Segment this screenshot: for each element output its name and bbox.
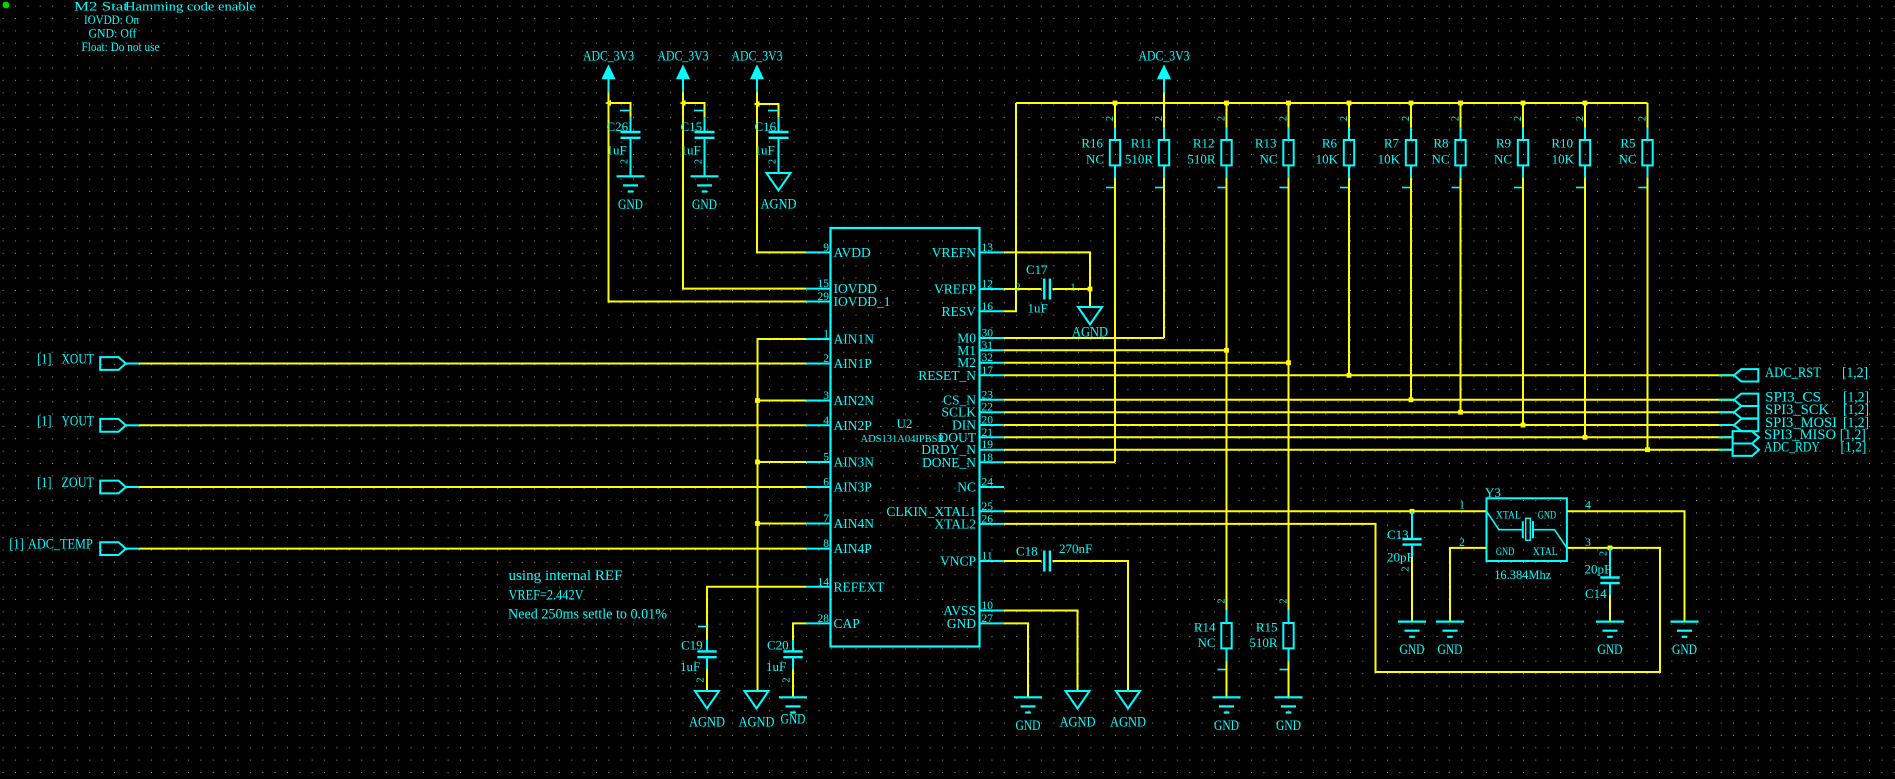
svg-text:17: 17 bbox=[982, 365, 994, 377]
pin 17 RESET_N bbox=[918, 365, 1004, 383]
power flag ADC_3V3 (C26 rail) bbox=[583, 49, 634, 93]
wire crystal pin 4 to GND bbox=[1567, 511, 1685, 621]
capacitor C19 1uF bbox=[680, 627, 717, 683]
svg-text:RESV: RESV bbox=[941, 304, 976, 319]
svg-text:VREFN: VREFN bbox=[932, 245, 977, 260]
svg-text:M2 Stat: M2 Stat bbox=[74, 0, 129, 14]
junction bus/R12 bbox=[1224, 101, 1229, 106]
wire M2 column down to R15 bbox=[1288, 363, 1290, 610]
port SPI3_SCK [1,2] bbox=[1719, 402, 1869, 418]
junction bus/R10 bbox=[1583, 101, 1588, 106]
svg-text:ADC_3V3: ADC_3V3 bbox=[732, 49, 783, 65]
svg-text:ADC_RST: ADC_RST bbox=[1765, 365, 1821, 381]
svg-text:5: 5 bbox=[823, 452, 829, 464]
pin 13 VREFN bbox=[932, 242, 1004, 260]
svg-text:GND: GND bbox=[1438, 642, 1463, 658]
wire bus drop to R5 bbox=[1647, 103, 1649, 128]
svg-text:2: 2 bbox=[694, 159, 705, 164]
svg-text:YOUT: YOUT bbox=[62, 413, 94, 429]
port ZOUT [1] bbox=[37, 475, 139, 493]
svg-text:R10: R10 bbox=[1551, 136, 1573, 151]
svg-text:AIN3P: AIN3P bbox=[834, 480, 872, 495]
svg-text:GND: GND bbox=[1672, 642, 1697, 658]
svg-text:AGND: AGND bbox=[689, 714, 725, 730]
wire pin 27 GND to GND symbol bbox=[1004, 623, 1028, 697]
pin 28 CAP bbox=[806, 613, 860, 631]
svg-text:25: 25 bbox=[982, 501, 994, 513]
wire branch to pin 7 AIN4N bbox=[758, 523, 807, 525]
ground AGND (C19) bbox=[689, 691, 725, 730]
junction DRDY_N/R5 bbox=[1645, 447, 1650, 452]
svg-text:R8: R8 bbox=[1433, 136, 1448, 151]
resistor R13 NC bbox=[1255, 116, 1294, 188]
svg-text:2: 2 bbox=[1154, 116, 1165, 121]
svg-text:R13: R13 bbox=[1255, 136, 1277, 151]
wire ADC_3V3 stem to elbow C15 bbox=[682, 93, 684, 104]
wire R8 bottom to net SCK bbox=[1460, 178, 1462, 412]
svg-text:Need 250ms settle to 0.01%: Need 250ms settle to 0.01% bbox=[508, 607, 667, 623]
svg-text:GND: GND bbox=[1276, 718, 1301, 734]
wire pin 31 M1 to R12/R14 column bbox=[1004, 349, 1227, 351]
pin 14 REFEXT bbox=[806, 576, 885, 594]
svg-text:IOVDD_1: IOVDD_1 bbox=[834, 294, 891, 309]
pin 9 AVDD bbox=[806, 242, 871, 260]
resistor R5 NC bbox=[1618, 116, 1652, 188]
wire ADC_TEMP to pin 8 AIN4P bbox=[139, 548, 806, 550]
svg-text:2: 2 bbox=[1217, 598, 1228, 603]
svg-text:ADC_3V3: ADC_3V3 bbox=[583, 49, 634, 65]
wire R5 bottom to net RDY bbox=[1647, 178, 1649, 450]
pin 25 CLKIN_XTAL1 bbox=[886, 501, 1004, 519]
capacitor C26 1uF bbox=[607, 111, 641, 165]
svg-text:2: 2 bbox=[620, 159, 631, 164]
svg-text:19: 19 bbox=[982, 439, 994, 451]
power flag ADC_3V3 (pull-up bus) bbox=[1139, 49, 1190, 93]
ground GND (C15) bbox=[691, 176, 719, 213]
svg-text:ADC_RDY: ADC_RDY bbox=[1764, 440, 1820, 456]
crystal Y3 16.384Mhz bbox=[1459, 485, 1591, 582]
svg-text:1uF: 1uF bbox=[680, 659, 700, 674]
svg-text:R9: R9 bbox=[1496, 136, 1511, 151]
svg-text:2: 2 bbox=[1105, 116, 1116, 121]
pin 8 AIN4P bbox=[806, 538, 872, 556]
svg-text:9: 9 bbox=[823, 242, 829, 254]
wire bus drop to R6 bbox=[1348, 103, 1350, 128]
svg-text:C15: C15 bbox=[681, 119, 703, 134]
svg-text:14: 14 bbox=[818, 576, 830, 588]
wire elbow marker C26 bbox=[605, 100, 611, 106]
port SPI3_CS [1,2] bbox=[1719, 390, 1869, 406]
pin 7 AIN4N bbox=[806, 513, 874, 531]
svg-text:10K: 10K bbox=[1378, 152, 1401, 167]
svg-text:4: 4 bbox=[1585, 500, 1591, 512]
wire bus to pin 16 RESV bbox=[1004, 103, 1016, 311]
wire pin 11 VNCP to C18 bbox=[1004, 560, 1042, 562]
svg-text:C14: C14 bbox=[1585, 586, 1607, 601]
svg-text:GND: GND bbox=[1016, 718, 1041, 734]
svg-text:2: 2 bbox=[1451, 116, 1462, 121]
svg-text:NC: NC bbox=[1086, 152, 1104, 167]
svg-text:11: 11 bbox=[982, 551, 993, 563]
wire R14 to GND bbox=[1226, 661, 1228, 697]
wire pin 22 SCLK to port SPI3_SCK bbox=[1004, 411, 1734, 413]
pin 4 AIN2P bbox=[806, 415, 872, 433]
svg-text:2: 2 bbox=[1015, 283, 1020, 294]
svg-text:IOVDD: On: IOVDD: On bbox=[84, 13, 140, 27]
resistor R16 NC bbox=[1081, 116, 1120, 188]
svg-text:26: 26 bbox=[982, 513, 994, 525]
wire pin 26 XTAL2 loop to crystal pin 3 bbox=[1004, 524, 1660, 672]
svg-text:2: 2 bbox=[1401, 116, 1412, 121]
wire C19 bottom to AGND bbox=[706, 669, 708, 691]
wire ADC_3V3 rail down to pin 29 IOVDD_1 bbox=[609, 103, 807, 302]
svg-text:2: 2 bbox=[1279, 116, 1290, 121]
wire pin 17 RESET_N to port ADC_RST bbox=[1004, 374, 1734, 376]
pin 18 DONE_N bbox=[922, 452, 1004, 470]
svg-text:2: 2 bbox=[1401, 566, 1412, 571]
ground GND (C13) bbox=[1398, 622, 1426, 659]
svg-text:GND: GND bbox=[1496, 544, 1515, 558]
svg-text:ADC_3V3: ADC_3V3 bbox=[658, 49, 709, 65]
junction DOUT/R10 bbox=[1583, 435, 1588, 440]
wire C26 bottom to GND bbox=[630, 151, 632, 177]
wire C15 top branch bbox=[683, 103, 705, 118]
junction RESET_N/R6 bbox=[1347, 373, 1352, 378]
junction bus/R6 bbox=[1347, 101, 1352, 106]
wire C20 bottom to GND bbox=[792, 669, 794, 697]
pin 2 AIN1P bbox=[806, 353, 872, 371]
svg-text:NC: NC bbox=[1197, 635, 1215, 650]
port ADC_TEMP [1] bbox=[9, 537, 139, 555]
svg-text:C18: C18 bbox=[1016, 544, 1038, 559]
wire ADC_3V3 stem to elbow C26 bbox=[608, 93, 610, 104]
svg-text:510R: 510R bbox=[1187, 152, 1216, 167]
ground AGND (C17) bbox=[1072, 307, 1108, 341]
svg-text:24: 24 bbox=[982, 477, 994, 489]
svg-text:R14: R14 bbox=[1194, 620, 1216, 635]
svg-text:7: 7 bbox=[823, 513, 829, 525]
wire C14 to GND bbox=[1609, 595, 1611, 622]
svg-text:R6: R6 bbox=[1322, 136, 1338, 151]
svg-text:2: 2 bbox=[696, 677, 707, 682]
ground AGND (AVSS) bbox=[1060, 691, 1096, 730]
wire C26 top branch bbox=[609, 103, 631, 118]
svg-text:4: 4 bbox=[823, 415, 829, 427]
wire ADC_3V3 rail down to pin 9 AVDD bbox=[757, 104, 806, 252]
wire bus drop to R12 bbox=[1226, 103, 1228, 128]
capacitor C13 20pF bbox=[1387, 511, 1422, 571]
svg-text:16.384Mhz: 16.384Mhz bbox=[1494, 567, 1551, 582]
svg-text:Float: Do not use: Float: Do not use bbox=[82, 40, 160, 54]
svg-text:ZOUT: ZOUT bbox=[62, 475, 94, 491]
svg-text:31: 31 bbox=[982, 340, 994, 352]
wire bus drop to R8 bbox=[1460, 103, 1462, 128]
junction M2 column bbox=[1286, 360, 1291, 365]
svg-text:2: 2 bbox=[1638, 116, 1649, 121]
wire elbow marker C16 bbox=[754, 101, 760, 107]
svg-text:23: 23 bbox=[982, 389, 994, 401]
svg-text:AIN4N: AIN4N bbox=[834, 516, 875, 531]
wire C15 bottom to GND bbox=[704, 151, 706, 177]
capacitor C14 20pF bbox=[1585, 548, 1620, 601]
svg-text:GND: GND bbox=[618, 197, 643, 213]
svg-text:20pF: 20pF bbox=[1585, 561, 1612, 576]
svg-text:GND: GND bbox=[781, 711, 806, 727]
wire YOUT to pin 4 AIN2P bbox=[139, 424, 806, 426]
resistor R10 10K bbox=[1551, 116, 1590, 188]
svg-text:10K: 10K bbox=[1552, 152, 1575, 167]
port YOUT [1] bbox=[37, 413, 139, 431]
port XOUT [1] bbox=[37, 352, 139, 370]
svg-text:21: 21 bbox=[982, 427, 994, 439]
wire bus drop to R9 bbox=[1522, 103, 1524, 128]
svg-text:DONE_N: DONE_N bbox=[922, 455, 976, 470]
svg-text:NC: NC bbox=[1494, 152, 1512, 167]
svg-text:AIN4P: AIN4P bbox=[834, 541, 872, 556]
wire bus drop to R16 bbox=[1114, 103, 1116, 128]
wire pull-up bus ADC_3V3 bbox=[1016, 102, 1648, 104]
svg-text:C17: C17 bbox=[1026, 262, 1048, 277]
pin 15 IOVDD bbox=[806, 278, 877, 296]
pin 12 VREFP bbox=[934, 279, 1004, 297]
svg-text:ADC_TEMP: ADC_TEMP bbox=[28, 537, 93, 553]
pin 27 GND bbox=[947, 613, 1004, 631]
svg-text:[1,2]: [1,2] bbox=[1842, 365, 1868, 381]
svg-text:AGND: AGND bbox=[1060, 714, 1096, 730]
pin 21 DOUT bbox=[939, 427, 1005, 445]
wire M1 column down to R14 bbox=[1226, 350, 1228, 610]
ground AGND (C16) bbox=[761, 173, 797, 212]
svg-text:20pF: 20pF bbox=[1387, 550, 1414, 565]
svg-text:2: 2 bbox=[1279, 598, 1290, 603]
wire XOUT to pin 2 AIN1P bbox=[139, 363, 806, 365]
svg-text:16: 16 bbox=[982, 301, 994, 313]
wire C16 bottom to AGND bbox=[778, 151, 780, 174]
junction bus/R7 bbox=[1409, 101, 1414, 106]
svg-text:using internal REF: using internal REF bbox=[509, 568, 623, 584]
pin 11 VNCP bbox=[940, 551, 1004, 569]
wire pin 14 REFEXT to C19 bbox=[707, 587, 806, 640]
svg-text:AIN2N: AIN2N bbox=[834, 393, 875, 408]
svg-text:GND: GND bbox=[947, 616, 976, 631]
port SPI3_MISO [1,2] bbox=[1719, 427, 1866, 443]
svg-text:NC: NC bbox=[1259, 152, 1277, 167]
wire R7 bottom to net CS bbox=[1410, 178, 1412, 400]
junction XTAL2/C14 bbox=[1608, 546, 1613, 551]
resistor R14 NC bbox=[1194, 598, 1232, 669]
svg-text:VREFP: VREFP bbox=[934, 282, 976, 297]
pin 6 AIN3P bbox=[806, 477, 872, 495]
svg-text:XTAL2: XTAL2 bbox=[934, 516, 976, 531]
svg-text:18: 18 bbox=[982, 452, 994, 464]
svg-text:510R: 510R bbox=[1249, 635, 1278, 650]
junction bus/R9 bbox=[1521, 101, 1526, 106]
pin 31 M1 bbox=[957, 340, 1004, 358]
capacitor C17 1uF bbox=[1015, 262, 1075, 316]
svg-text:1uF: 1uF bbox=[1028, 301, 1048, 316]
ground GND (crystal pin 2) bbox=[1436, 622, 1464, 659]
svg-text:510R: 510R bbox=[1125, 152, 1154, 167]
wire bus drop to R10 bbox=[1584, 103, 1586, 128]
svg-text:NC: NC bbox=[1618, 152, 1636, 167]
wire R16 bottom to net DONE bbox=[1114, 178, 1116, 462]
svg-text:R5: R5 bbox=[1620, 136, 1635, 151]
junction SCLK/R8 bbox=[1458, 410, 1463, 415]
svg-text:C19: C19 bbox=[681, 638, 703, 653]
wire R15 to GND bbox=[1288, 661, 1290, 697]
junction VREFN/C17 bbox=[1088, 287, 1093, 292]
wire pin 32 M2 to R13/R15 column bbox=[1004, 362, 1289, 364]
wire bus drop to R11 bbox=[1163, 103, 1165, 128]
resistor R8 NC bbox=[1431, 116, 1465, 188]
wire pin 23 CS_N to port SPI3_CS bbox=[1004, 399, 1734, 401]
svg-text:Hamming code enable: Hamming code enable bbox=[125, 0, 257, 14]
capacitor C20 1uF bbox=[766, 638, 803, 683]
svg-text:3: 3 bbox=[823, 390, 829, 402]
svg-text:30: 30 bbox=[982, 328, 994, 340]
svg-text:VREF=2.442V: VREF=2.442V bbox=[509, 588, 584, 604]
pin 1 AIN1N bbox=[806, 329, 874, 347]
svg-text:1uF: 1uF bbox=[607, 143, 627, 158]
wire bus drop to R7 bbox=[1410, 103, 1412, 128]
svg-text:2: 2 bbox=[768, 159, 779, 164]
wire R9 bottom to net DIN bbox=[1522, 178, 1524, 425]
status marker dot bbox=[3, 2, 10, 9]
svg-text:2: 2 bbox=[823, 353, 829, 365]
svg-text:10: 10 bbox=[982, 600, 994, 612]
svg-text:2: 2 bbox=[1575, 116, 1586, 121]
svg-text:C16: C16 bbox=[755, 119, 777, 134]
wire AIN1N net vertical to AGND bbox=[758, 339, 807, 691]
pin 23 CS_N bbox=[943, 389, 1004, 407]
ground AGND (C18) bbox=[1110, 691, 1146, 730]
capacitor C15 1uF bbox=[681, 111, 715, 165]
svg-text:10K: 10K bbox=[1316, 152, 1339, 167]
pin 16 RESV bbox=[941, 301, 1004, 319]
svg-text:1: 1 bbox=[823, 329, 829, 341]
svg-text:AIN2P: AIN2P bbox=[834, 418, 872, 433]
svg-text:20: 20 bbox=[982, 415, 994, 427]
wire R6 bottom to net RST bbox=[1348, 178, 1350, 375]
resistor R7 10K bbox=[1378, 116, 1417, 188]
svg-text:GND: GND bbox=[1598, 642, 1623, 658]
svg-text:AGND: AGND bbox=[739, 714, 775, 730]
svg-text:AIN3N: AIN3N bbox=[834, 455, 875, 470]
resistor R12 510R bbox=[1187, 116, 1231, 188]
svg-text:1uF: 1uF bbox=[766, 659, 786, 674]
pin 3 AIN2N bbox=[806, 390, 874, 408]
wire branch to pin 5 AIN3N bbox=[758, 461, 807, 463]
pin 30 M0 bbox=[957, 328, 1004, 346]
svg-text:R7: R7 bbox=[1384, 136, 1400, 151]
wire R11 bottom to net M0 bbox=[1163, 178, 1165, 338]
ground AGND (AIN-N net) bbox=[739, 691, 775, 730]
svg-text:1uF: 1uF bbox=[681, 143, 701, 158]
svg-text:13: 13 bbox=[982, 242, 994, 254]
pin 32 M2 bbox=[957, 352, 1004, 370]
svg-text:AVDD: AVDD bbox=[834, 245, 872, 260]
svg-text:28: 28 bbox=[818, 613, 830, 625]
pin 24 NC bbox=[957, 477, 1004, 495]
svg-text:[1]: [1] bbox=[37, 352, 52, 368]
svg-text:22: 22 bbox=[982, 402, 994, 414]
resistor R11 510R bbox=[1125, 116, 1169, 188]
ground GND (crystal pin 4) bbox=[1671, 622, 1699, 659]
svg-text:XOUT: XOUT bbox=[62, 352, 94, 368]
svg-text:NC: NC bbox=[1431, 152, 1449, 167]
wire ADC_3V3 stem to bus bbox=[1163, 93, 1165, 104]
svg-text:Y3: Y3 bbox=[1485, 485, 1501, 500]
junction bus/R16 bbox=[1113, 101, 1118, 106]
svg-text:29: 29 bbox=[818, 291, 830, 303]
wire C17 to AGND drop bbox=[1053, 289, 1091, 307]
ground GND (R15) bbox=[1275, 697, 1303, 734]
svg-text:1: 1 bbox=[1459, 500, 1465, 512]
ground GND (C26) bbox=[617, 176, 645, 213]
wire C13 to GND bbox=[1411, 557, 1413, 622]
capacitor C18 270nF bbox=[1016, 541, 1092, 572]
svg-text:CAP: CAP bbox=[834, 616, 860, 631]
svg-text:RESET_N: RESET_N bbox=[918, 368, 976, 383]
junction AIN3N bbox=[755, 460, 760, 465]
junction DIN/R9 bbox=[1521, 423, 1526, 428]
wire pin 20 DIN to port SPI3_MOSI bbox=[1004, 424, 1734, 426]
svg-text:XTAL: XTAL bbox=[1496, 507, 1521, 521]
junction CS_N/R7 bbox=[1409, 397, 1414, 402]
svg-text:8: 8 bbox=[823, 538, 829, 550]
svg-text:2: 2 bbox=[1599, 551, 1610, 556]
svg-text:12: 12 bbox=[982, 279, 994, 291]
junction AIN4N bbox=[755, 521, 760, 526]
wire pin 18 DONE_N to R16 bbox=[1004, 461, 1115, 463]
svg-text:R16: R16 bbox=[1081, 136, 1103, 151]
wire R13 bottom to net M2 bbox=[1288, 178, 1290, 363]
capacitor C16 1uF bbox=[755, 111, 789, 165]
svg-text:3: 3 bbox=[1585, 537, 1591, 549]
power flag ADC_3V3 (C15 rail) bbox=[658, 49, 709, 93]
wire ADC_3V3 stem to elbow C16 bbox=[756, 93, 758, 105]
wire pin 25 CLKIN_XTAL1 to crystal pin 1 bbox=[1004, 510, 1486, 512]
svg-text:2: 2 bbox=[1513, 116, 1524, 121]
wire C18 to AGND drop bbox=[1053, 561, 1129, 691]
svg-text:R12: R12 bbox=[1193, 136, 1215, 151]
svg-text:2: 2 bbox=[1217, 116, 1228, 121]
svg-text:6: 6 bbox=[823, 477, 829, 489]
svg-text:R15: R15 bbox=[1256, 620, 1278, 635]
svg-text:GND: GND bbox=[692, 197, 717, 213]
svg-text:U2: U2 bbox=[897, 416, 913, 431]
wire pin 30 M0 to R11 bbox=[1004, 337, 1164, 339]
wire pin 12 VREFP to C17 bbox=[1004, 288, 1042, 290]
resistor R9 NC bbox=[1494, 116, 1528, 188]
wire bus drop to R13 bbox=[1288, 103, 1290, 128]
svg-text:C13: C13 bbox=[1387, 527, 1409, 542]
pin 5 AIN3N bbox=[806, 452, 874, 470]
pin 20 DIN bbox=[952, 415, 1004, 433]
wire pin 21 DOUT to port SPI3_MISO bbox=[1004, 436, 1733, 438]
wire R10 bottom to net DOUT bbox=[1584, 178, 1586, 437]
svg-text:GND: Off: GND: Off bbox=[89, 27, 138, 41]
svg-text:AIN1P: AIN1P bbox=[834, 356, 872, 371]
port ADC_RDY [1,2] bbox=[1719, 440, 1867, 456]
junction AIN2N bbox=[755, 398, 760, 403]
wire crystal pin 2 to GND bbox=[1450, 548, 1487, 622]
svg-text:2: 2 bbox=[782, 677, 793, 682]
port ADC_RST [1,2] bbox=[1719, 365, 1868, 381]
wire pin 28 CAP to C20 bbox=[793, 623, 806, 640]
junction bus/R8 bbox=[1458, 101, 1463, 106]
svg-text:GND: GND bbox=[1400, 642, 1425, 658]
